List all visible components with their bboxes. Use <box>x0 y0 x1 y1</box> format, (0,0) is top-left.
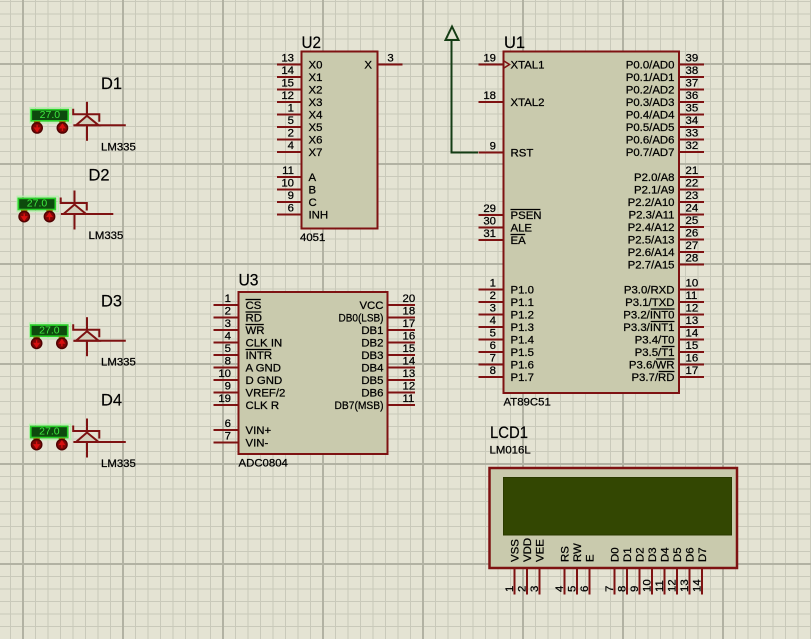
U1 pin 37 P0.2/AD2 <box>626 78 704 97</box>
LCD1 pin 3 VEE <box>529 539 547 595</box>
svg-text:P2.3/A11: P2.3/A11 <box>628 210 674 222</box>
LCD1 pin 4 RS <box>554 546 572 595</box>
svg-text:U1: U1 <box>504 33 525 52</box>
svg-text:7: 7 <box>604 586 616 592</box>
svg-text:A GND: A GND <box>246 363 281 375</box>
IC U3 ADC0804 body <box>239 292 388 454</box>
svg-text:LM335: LM335 <box>101 458 136 470</box>
svg-text:DB5: DB5 <box>361 375 383 387</box>
svg-text:D3: D3 <box>647 547 659 562</box>
D4 zener diode symbol <box>73 419 126 458</box>
svg-text:X2: X2 <box>309 85 323 97</box>
svg-text:2: 2 <box>225 306 231 318</box>
svg-text:13: 13 <box>403 368 416 380</box>
U1 pin 38 P0.1/AD1 <box>626 65 704 84</box>
svg-text:VCC: VCC <box>359 300 383 312</box>
svg-text:13: 13 <box>686 315 699 327</box>
svg-text:3: 3 <box>225 318 231 330</box>
svg-text:12: 12 <box>686 303 699 315</box>
svg-text:31: 31 <box>483 228 496 240</box>
U3 pin 12 DB6 <box>361 381 415 400</box>
svg-text:14: 14 <box>403 356 416 368</box>
svg-text:10: 10 <box>281 178 294 190</box>
temperature sensor D3 LM335 <box>30 323 71 349</box>
svg-text:X5: X5 <box>309 122 323 134</box>
U1 pin 39 P0.0/AD0 <box>626 53 704 72</box>
svg-text:P1.5: P1.5 <box>511 347 534 359</box>
U3 pin 7 VIN- <box>214 431 269 450</box>
svg-text:LCD1: LCD1 <box>490 423 528 442</box>
U3 pin 5 INTR <box>214 343 273 362</box>
svg-text:34: 34 <box>686 115 699 127</box>
LCD1 pin 8 D1 <box>617 547 635 594</box>
svg-text:27: 27 <box>686 240 699 252</box>
svg-text:6: 6 <box>579 586 591 592</box>
svg-text:DB4: DB4 <box>361 363 383 375</box>
svg-text:E: E <box>585 554 597 562</box>
svg-text:P2.2/A10: P2.2/A10 <box>628 197 675 209</box>
svg-text:P1.4: P1.4 <box>511 335 534 347</box>
svg-text:2: 2 <box>517 586 529 592</box>
svg-text:10: 10 <box>218 368 231 380</box>
U1 pin 11 P3.1/TXD <box>625 290 704 309</box>
svg-text:D7: D7 <box>697 547 709 562</box>
svg-text:D2: D2 <box>89 166 110 185</box>
svg-text:P2.7/A15: P2.7/A15 <box>628 260 675 272</box>
svg-text:27.0: 27.0 <box>27 198 48 210</box>
svg-text:14: 14 <box>281 65 294 77</box>
U1 pin 14 P3.4/T0 <box>635 328 704 347</box>
U1 pin 35 P0.4/AD4 <box>626 103 704 122</box>
svg-text:15: 15 <box>686 340 699 352</box>
svg-text:VEE: VEE <box>535 539 547 562</box>
svg-text:P0.6/AD6: P0.6/AD6 <box>626 135 675 147</box>
U1 pin 29 PSEN <box>479 203 542 222</box>
svg-text:19: 19 <box>483 53 496 65</box>
svg-text:P2.1/A9: P2.1/A9 <box>634 185 675 197</box>
svg-text:27.0: 27.0 <box>40 109 61 121</box>
svg-text:22: 22 <box>686 178 699 190</box>
svg-text:RST: RST <box>511 148 534 160</box>
svg-text:ADC0804: ADC0804 <box>239 458 288 470</box>
svg-text:P1.1: P1.1 <box>511 297 534 309</box>
U3 pin 17 DB1 <box>361 318 415 337</box>
svg-text:VREF/2: VREF/2 <box>246 388 286 400</box>
svg-text:26: 26 <box>686 228 699 240</box>
svg-text:DB7(MSB): DB7(MSB) <box>335 400 384 412</box>
svg-text:1: 1 <box>288 103 294 115</box>
svg-text:10: 10 <box>686 278 699 290</box>
svg-text:38: 38 <box>686 65 699 77</box>
svg-text:8: 8 <box>225 356 231 368</box>
svg-text:P0.2/AD2: P0.2/AD2 <box>626 85 675 97</box>
svg-text:4: 4 <box>225 331 231 343</box>
svg-text:16: 16 <box>403 331 416 343</box>
svg-text:X0: X0 <box>309 60 323 72</box>
svg-text:XTAL1: XTAL1 <box>511 60 545 72</box>
svg-text:P0.0/AD0: P0.0/AD0 <box>626 60 675 72</box>
svg-text:6: 6 <box>490 340 496 352</box>
U2 pin 11 A <box>277 165 317 184</box>
U3 pin 11 DB7(MSB) <box>335 393 416 412</box>
U2 pin 5 X5 <box>277 115 322 134</box>
svg-text:D GND: D GND <box>246 375 283 387</box>
U2 pin 15 X2 <box>277 78 322 97</box>
svg-text:1: 1 <box>225 293 231 305</box>
svg-text:P3.5/T1: P3.5/T1 <box>635 347 675 359</box>
svg-text:1: 1 <box>490 278 496 290</box>
svg-text:4: 4 <box>490 315 496 327</box>
svg-text:LM016L: LM016L <box>490 445 531 457</box>
svg-text:36: 36 <box>686 90 699 102</box>
U2 pin 10 B <box>277 178 316 197</box>
LCD1 pin 6 E <box>579 554 597 595</box>
U1 pin 25 P2.4/A12 <box>628 215 704 234</box>
svg-text:RS: RS <box>560 546 572 562</box>
U1 pin 13 P3.3/INT1 <box>623 315 704 334</box>
svg-text:LM335: LM335 <box>89 230 124 242</box>
IC U2 4051 analog multiplexer body <box>302 52 378 229</box>
wire from power arrow to U1 RST <box>452 40 479 153</box>
svg-text:PSEN: PSEN <box>511 210 542 222</box>
U3 pin 18 DB0(LSB) <box>339 306 416 325</box>
svg-text:RD: RD <box>246 313 262 325</box>
U3 pin 4 CLK IN <box>214 331 283 350</box>
U1 pin 15 P3.5/T1 <box>635 340 704 359</box>
svg-text:2: 2 <box>288 128 294 140</box>
svg-text:EA: EA <box>511 235 527 247</box>
U3 pin 20 VCC <box>359 293 415 312</box>
svg-text:P3.7/RD: P3.7/RD <box>631 372 674 384</box>
svg-text:ALE: ALE <box>511 223 533 235</box>
svg-text:U3: U3 <box>239 271 259 290</box>
svg-text:U2: U2 <box>302 33 322 52</box>
svg-text:39: 39 <box>686 53 699 65</box>
temperature sensor D4 LM335 <box>30 424 71 450</box>
svg-text:P2.6/A14: P2.6/A14 <box>628 247 675 259</box>
LCD1 LM016L module body <box>490 468 738 568</box>
svg-text:INH: INH <box>309 210 329 222</box>
svg-text:10: 10 <box>642 579 654 592</box>
svg-text:17: 17 <box>403 318 416 330</box>
U1 XTAL1 clock input chevron <box>504 61 510 68</box>
svg-text:27.0: 27.0 <box>39 426 60 438</box>
U1 pin 5 P1.4 <box>479 328 534 347</box>
svg-text:21: 21 <box>686 165 699 177</box>
U3 pin 16 DB2 <box>361 331 415 350</box>
U3 pin 19 CLK R <box>214 393 280 412</box>
svg-text:11: 11 <box>282 165 294 177</box>
svg-text:4051: 4051 <box>300 232 325 244</box>
svg-text:X7: X7 <box>309 147 323 159</box>
U1 pin 8 P1.7 <box>479 365 534 384</box>
svg-text:P3.0/RXD: P3.0/RXD <box>624 285 675 297</box>
svg-text:P3.3/INT1: P3.3/INT1 <box>623 322 674 334</box>
svg-text:D2: D2 <box>635 547 647 562</box>
LCD1 pin 12 D5 <box>667 547 685 594</box>
U1 pin 6 P1.5 <box>479 340 534 359</box>
svg-text:D5: D5 <box>672 547 684 562</box>
svg-text:18: 18 <box>483 90 496 102</box>
U1 pin 12 P3.2/INT0 <box>623 303 704 322</box>
svg-text:5: 5 <box>288 115 294 127</box>
svg-text:24: 24 <box>686 203 699 215</box>
svg-text:5: 5 <box>225 343 231 355</box>
svg-text:12: 12 <box>403 381 416 393</box>
U3 pin 10 D GND <box>214 368 283 387</box>
svg-text:RW: RW <box>572 543 584 562</box>
U1 pin 23 P2.2/A10 <box>628 190 704 209</box>
svg-text:X4: X4 <box>309 110 323 122</box>
U3 pin 3 WR <box>214 318 265 337</box>
svg-text:P1.7: P1.7 <box>511 372 534 384</box>
svg-text:13: 13 <box>281 53 294 65</box>
LCD1 pin 9 D2 <box>629 547 647 594</box>
svg-text:3: 3 <box>387 53 393 65</box>
svg-text:29: 29 <box>483 203 496 215</box>
U1 pin 2 P1.1 <box>479 290 534 309</box>
svg-text:2: 2 <box>490 290 496 302</box>
svg-text:D4: D4 <box>101 391 122 410</box>
svg-text:37: 37 <box>686 78 699 90</box>
U1 pin 1 P1.0 <box>479 278 534 297</box>
svg-text:XTAL2: XTAL2 <box>511 97 545 109</box>
U1 pin 10 P3.0/RXD <box>624 278 704 297</box>
LCD1 pin 2 VDD <box>517 538 535 595</box>
svg-text:P0.5/AD5: P0.5/AD5 <box>626 122 675 134</box>
U1 pin 19 XTAL1 <box>479 53 545 72</box>
U1 pin 34 P0.5/AD5 <box>626 115 704 134</box>
LCD1 pin 11 D4 <box>654 547 672 594</box>
svg-text:1: 1 <box>504 586 516 592</box>
svg-text:D1: D1 <box>622 547 634 562</box>
svg-text:D0: D0 <box>610 547 622 562</box>
svg-text:WR: WR <box>246 325 265 337</box>
U2 pin 14 X1 <box>277 65 322 84</box>
svg-text:INTR: INTR <box>246 350 273 362</box>
svg-text:33: 33 <box>686 128 699 140</box>
svg-text:9: 9 <box>490 141 496 153</box>
svg-text:14: 14 <box>692 579 704 592</box>
LCD1 screen glass <box>504 478 732 536</box>
svg-text:12: 12 <box>667 579 679 592</box>
svg-text:CLK R: CLK R <box>246 400 280 412</box>
svg-text:18: 18 <box>403 306 416 318</box>
D2 zener diode symbol <box>61 191 114 230</box>
LCD1 pin 5 RW <box>567 543 585 595</box>
svg-text:5: 5 <box>490 328 496 340</box>
svg-text:P3.4/T0: P3.4/T0 <box>635 335 675 347</box>
svg-text:VIN+: VIN+ <box>246 425 272 437</box>
U1 pin 22 P2.1/A9 <box>634 178 704 197</box>
svg-text:P2.4/A12: P2.4/A12 <box>628 222 675 234</box>
svg-text:D3: D3 <box>101 292 122 311</box>
svg-text:P3.1/TXD: P3.1/TXD <box>625 297 674 309</box>
svg-text:32: 32 <box>686 140 699 152</box>
svg-text:3: 3 <box>529 586 541 592</box>
svg-text:D4: D4 <box>660 547 672 562</box>
svg-text:8: 8 <box>490 365 496 377</box>
svg-text:B: B <box>309 185 317 197</box>
U1 pin 24 P2.3/A11 <box>628 203 704 222</box>
U1 pin 4 P1.3 <box>479 315 534 334</box>
svg-text:P1.6: P1.6 <box>511 360 534 372</box>
svg-text:VDD: VDD <box>522 538 534 562</box>
svg-text:AT89C51: AT89C51 <box>504 397 551 409</box>
svg-text:X6: X6 <box>309 135 323 147</box>
svg-text:9: 9 <box>225 381 231 393</box>
U1 pin 30 ALE <box>479 216 533 235</box>
svg-text:VSS: VSS <box>510 539 522 562</box>
svg-text:LM335: LM335 <box>101 141 136 153</box>
svg-text:12: 12 <box>281 90 294 102</box>
U2 pin 1 X4 <box>277 103 322 122</box>
svg-text:P0.4/AD4: P0.4/AD4 <box>626 110 675 122</box>
svg-text:P2.0/A8: P2.0/A8 <box>634 172 675 184</box>
svg-text:20: 20 <box>403 293 416 305</box>
U3 pin 6 VIN+ <box>214 418 272 437</box>
svg-text:X: X <box>364 60 372 72</box>
svg-text:A: A <box>309 172 317 184</box>
U2 pin 2 X6 <box>277 128 322 147</box>
power pin arrow (VCC) <box>446 27 459 41</box>
svg-text:23: 23 <box>686 190 699 202</box>
temperature sensor D1 LM335 <box>30 108 71 134</box>
svg-text:28: 28 <box>686 253 699 265</box>
U1 pin 9 RST <box>479 141 534 160</box>
U1 pin 33 P0.6/AD6 <box>626 128 704 147</box>
svg-text:25: 25 <box>686 215 699 227</box>
svg-text:C: C <box>309 197 317 209</box>
U1 pin 26 P2.5/A13 <box>628 228 704 247</box>
U3 pin 14 DB4 <box>361 356 415 375</box>
svg-text:P2.5/A13: P2.5/A13 <box>628 235 675 247</box>
U3 pin 1 CS <box>214 293 262 312</box>
U2 pin 3 X output <box>364 53 402 72</box>
U1 pin 17 P3.7/RD <box>631 365 704 384</box>
svg-text:DB6: DB6 <box>361 388 383 400</box>
svg-text:4: 4 <box>554 586 566 592</box>
svg-text:DB2: DB2 <box>361 338 383 350</box>
U1 pin 28 P2.7/A15 <box>628 253 704 272</box>
U1 pin 31 EA <box>479 228 527 247</box>
svg-text:27.0: 27.0 <box>39 324 60 336</box>
U1 pin 21 P2.0/A8 <box>634 165 704 184</box>
temperature sensor D2 LM335 <box>17 196 58 222</box>
U2 pin 6 INH <box>277 203 328 222</box>
svg-text:P1.3: P1.3 <box>511 322 534 334</box>
U3 pin 2 RD <box>214 306 262 325</box>
U3 pin 8 A GND <box>214 356 281 375</box>
svg-text:P3.6/WR: P3.6/WR <box>629 360 675 372</box>
svg-text:P1.2: P1.2 <box>511 310 534 322</box>
svg-text:30: 30 <box>483 216 496 228</box>
svg-text:6: 6 <box>288 203 294 215</box>
U1 pin 32 P0.7/AD7 <box>626 140 704 159</box>
svg-text:CLK IN: CLK IN <box>246 338 283 350</box>
svg-text:X3: X3 <box>309 97 323 109</box>
D1 zener diode symbol <box>73 102 126 141</box>
svg-text:8: 8 <box>617 586 629 592</box>
svg-text:X1: X1 <box>309 72 323 84</box>
svg-text:17: 17 <box>686 365 699 377</box>
svg-text:35: 35 <box>686 103 699 115</box>
svg-text:D1: D1 <box>101 74 122 93</box>
svg-text:DB3: DB3 <box>361 350 383 362</box>
svg-text:4: 4 <box>288 140 294 152</box>
svg-text:DB0(LSB): DB0(LSB) <box>339 313 384 325</box>
U2 pin 9 C <box>277 190 317 209</box>
svg-text:7: 7 <box>490 353 496 365</box>
U1 pin 18 XTAL2 <box>479 90 545 109</box>
LCD1 pin 7 D0 <box>604 547 622 594</box>
LCD1 pin 10 D3 <box>642 547 660 594</box>
svg-text:DB1: DB1 <box>361 325 383 337</box>
U3 pin 13 DB5 <box>361 368 415 387</box>
svg-text:3: 3 <box>490 303 496 315</box>
U1 pin 27 P2.6/A14 <box>628 240 704 259</box>
LCD1 pin 14 D7 <box>692 547 710 594</box>
U3 pin 15 DB3 <box>361 343 415 362</box>
svg-text:CS: CS <box>246 300 262 312</box>
LCD1 pin 1 VSS <box>504 539 522 595</box>
U1 pin 16 P3.6/WR <box>629 353 704 372</box>
U2 pin 13 X0 <box>277 53 322 72</box>
svg-text:19: 19 <box>218 393 231 405</box>
LCD1 pin 13 D6 <box>679 547 697 594</box>
U1 pin 36 P0.3/AD3 <box>626 90 704 109</box>
IC U1 AT89C51 microcontroller body <box>504 52 680 394</box>
svg-text:P0.1/AD1: P0.1/AD1 <box>626 72 675 84</box>
svg-text:D6: D6 <box>685 547 697 562</box>
svg-text:P0.7/AD7: P0.7/AD7 <box>626 147 675 159</box>
svg-text:11: 11 <box>403 393 415 405</box>
svg-text:9: 9 <box>288 190 294 202</box>
svg-text:P0.3/AD3: P0.3/AD3 <box>626 97 675 109</box>
svg-text:15: 15 <box>281 78 294 90</box>
svg-text:11: 11 <box>686 290 698 302</box>
svg-text:16: 16 <box>686 353 699 365</box>
svg-text:13: 13 <box>679 579 691 592</box>
svg-text:LM335: LM335 <box>101 357 136 369</box>
svg-text:15: 15 <box>403 343 416 355</box>
U2 pin 4 X7 <box>277 140 322 159</box>
U1 pin 3 P1.2 <box>479 303 534 322</box>
svg-text:5: 5 <box>567 586 579 592</box>
svg-text:9: 9 <box>629 586 641 592</box>
svg-text:VIN-: VIN- <box>246 438 269 450</box>
D3 zener diode symbol <box>73 317 126 356</box>
svg-text:P3.2/INT0: P3.2/INT0 <box>623 310 674 322</box>
U2 pin 12 X3 <box>277 90 322 109</box>
U3 pin 9 VREF/2 <box>214 381 286 400</box>
U1 pin 7 P1.6 <box>479 353 534 372</box>
svg-text:6: 6 <box>225 418 231 430</box>
svg-text:11: 11 <box>654 580 666 592</box>
svg-text:7: 7 <box>225 431 231 443</box>
svg-text:14: 14 <box>686 328 699 340</box>
svg-text:P1.0: P1.0 <box>511 285 534 297</box>
